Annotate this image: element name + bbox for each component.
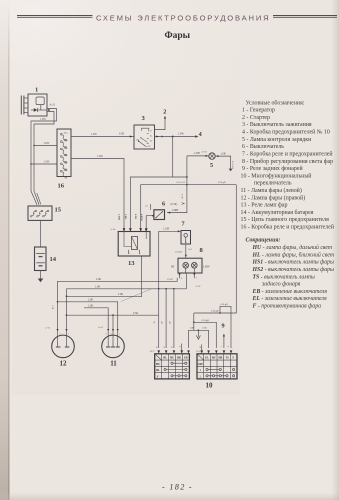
svg-text:1.25LB: 1.25LB [175,250,183,253]
svg-text:7: 7 [220,346,222,347]
svg-text:11: 11 [110,359,117,367]
svg-text:5 - Лампа контроля зарядки: 5 - Лампа контроля зарядки [242,137,312,143]
svg-text:30A: 30A [64,146,68,149]
svg-text:0.5LgB: 0.5LgB [211,310,219,313]
svg-text:8: 8 [178,346,180,347]
svg-text:14 - Аккумуляторная батарея: 14 - Аккумуляторная батарея [241,209,314,216]
svg-text:HL: HL [163,357,167,360]
svg-text:30A: 30A [64,139,68,142]
bus L4 (lamp11 hb link) [57,298,118,340]
svg-text:HU - лампа фары, дальний свет: HU - лампа фары, дальний свет [252,244,333,251]
svg-text:1.25R: 1.25R [163,227,170,230]
svg-text:2.0R: 2.0R [118,293,123,296]
wires from L2 junctions to switch table [165,289,167,348]
ground (battery) [38,279,44,283]
svg-text:16: 16 [58,183,65,190]
svg-text:0.5LgB: 0.5LgB [218,181,226,184]
svg-text:5: 5 [210,162,213,169]
grounding loop over tables [189,328,209,348]
svg-text:2 - Стартер: 2 - Стартер [242,115,270,121]
ground arrow inside loop [196,329,200,339]
svg-text:6: 6 [162,200,165,207]
svg-text:1.0R: 1.0R [124,214,127,219]
svg-text:10: 10 [162,346,164,348]
svg-text:12: 12 [60,359,68,367]
svg-text:HB: HB [219,357,223,360]
svg-text:2: 2 [106,333,107,335]
node 2 arrow (to starter) [155,108,167,129]
svg-text:Сокращения:: Сокращения: [246,238,281,244]
svg-text:1.5W: 1.5W [44,161,50,164]
svg-text:HS2 - выключатель лампы фары: HS2 - выключатель лампы фары [252,266,335,273]
svg-text:30A: 30A [64,132,68,135]
left table top pins [157,350,160,353]
svg-text:0.5W: 0.5W [180,194,182,200]
wire H2 main bus [141,181,237,232]
svg-text:1: 1 [68,333,69,335]
svg-text:HU: HU [212,357,216,360]
svg-text:12: 12 [170,346,172,348]
svg-text:4 - Коробка предохранителей №: 4 - Коробка предохранителей № 10 [242,129,330,136]
svg-text:13: 13 [128,260,135,267]
left table column wire labels [153,321,170,325]
wire branch to table pin 5 [219,303,231,348]
svg-text:1: 1 [35,87,38,94]
svg-text:12 - Лампа фары (правой): 12 - Лампа фары (правой) [241,194,306,201]
svg-text:1.25R: 1.25R [117,214,120,220]
running head rule left [17,15,93,18]
svg-text:14: 14 [50,256,57,263]
svg-text:1.0W: 1.0W [91,133,97,136]
svg-text:9 - Реле задних фонарей: 9 - Реле задних фонарей [242,165,303,172]
wire right-side drop [194,185,237,313]
svg-text:2: 2 [60,333,61,335]
svg-text:HB: HB [177,357,181,360]
bus L1 (lamp12 hi feed) [51,278,177,341]
svg-text:0.5A-18: 0.5A-18 [231,161,234,169]
svg-text:0.5R: 0.5R [133,312,138,315]
svg-text:D-11: D-11 [197,350,203,353]
relay 13 output down [141,256,143,297]
svg-text:4: 4 [199,131,202,138]
wire switch6 to relay pin4 [145,215,154,232]
svg-text:8 - Прибор регулирования света: 8 - Прибор регулирования света фар [242,158,333,165]
svg-text:1: 1 [119,333,120,335]
svg-text:1.0R: 1.0R [88,304,93,307]
svg-text:заднего фонаря: заднего фонаря [261,281,301,288]
svg-text:0.5LgB: 0.5LgB [221,303,229,306]
svg-text:11 - Лампа фары (левой): 11 - Лампа фары (левой) [241,187,302,194]
svg-text:13 - Реле ламп фар: 13 - Реле ламп фар [241,202,288,209]
wire box8 to bus L2 [186,273,188,289]
box 7 (dimmer switch) [181,221,191,244]
svg-text:1.0RB: 1.0RB [172,209,179,212]
wire right drop to lower junction [193,310,219,331]
box 8 bottom pins [178,273,201,288]
svg-text:EB: EB [184,357,188,360]
svg-text:F - противотуманная фара: F - противотуманная фара [253,303,322,310]
svg-text:7 - Коробка реле и предохранит: 7 - Коробка реле и предохранителей [242,151,333,158]
wire fusebox16 to ignition switch [71,133,134,138]
wire box7 feed [159,227,181,232]
svg-text:Фары: Фары [164,31,190,41]
svg-text:0.5A-18: 0.5A-18 [177,181,186,184]
svg-text:10: 10 [206,382,214,390]
svg-text:A-21: A-21 [50,103,56,106]
svg-text:1.0W: 1.0W [44,142,50,145]
svg-text:HS1 - выключатель лампы фары: HS1 - выключатель лампы фары [252,259,335,266]
svg-text:A-18: A-18 [202,151,208,154]
fuse box 16 [57,129,71,190]
svg-text:15: 15 [55,207,62,214]
svg-text:2.0R: 2.0R [96,278,101,281]
svg-text:A-11: A-11 [45,327,51,330]
switch 6 [145,200,184,219]
wire H1 horizontal to relay pin2 [130,177,187,232]
svg-text:HU: HU [156,363,160,366]
svg-text:3 - Выключатель зажигания: 3 - Выключатель зажигания [242,122,312,128]
svg-text:1.0W: 1.0W [178,132,184,135]
multifunction switch 10 : right contact table [197,345,238,379]
svg-text:1: 1 [196,277,197,279]
right page edge shading [0,0,1,1]
svg-text:Условные обозначения:: Условные обозначения: [246,99,305,106]
svg-text:1.0W: 1.0W [40,118,46,121]
node 9 arrow (to rear lamp relay) [222,323,226,348]
wire box7 to box8 [175,244,193,258]
svg-text:TS - выключатель лампы: TS - выключатель лампы [253,274,315,280]
svg-text:30A: 30A [64,154,68,157]
wire fusebox16 to relay coil [71,155,124,232]
wire fusebox16 input upper [33,142,57,146]
svg-text:1.0B: 1.0B [221,152,226,155]
generator 1 [21,87,55,116]
svg-text:0.5B: 0.5B [119,133,124,136]
svg-text:HL: HL [156,369,160,372]
svg-text:10 - Многофункциональный: 10 - Многофункциональный [241,172,313,179]
svg-text:1.25R: 1.25R [167,278,173,281]
wire box7 long drop to switch table [158,231,160,348]
running head rule right [273,15,337,18]
svg-text:1.25B: 1.25B [194,152,201,155]
svg-text:HU: HU [170,357,174,360]
bus L6 (dimmer line) [66,312,159,341]
svg-text:6: 6 [227,346,229,347]
svg-text:2.0R: 2.0R [88,298,93,301]
wire 15 to battery [40,220,42,247]
svg-text:0.5Y: 0.5Y [196,285,201,288]
svg-text:A-12: A-12 [98,326,104,329]
wire generator to fuse boxes (double cable) [31,109,57,205]
multifunction switch 10 : left contact table [150,344,190,379]
svg-text:(0.5R): (0.5R) [171,203,178,206]
svg-text:16 - Коробка реле и предохрани: 16 - Коробка реле и предохранителей [241,224,335,231]
svg-text:D-17: D-17 [150,350,156,353]
wire branch to table pin 3 [194,319,217,348]
svg-text:1.0B: 1.0B [202,328,207,330]
svg-text:1.0R: 1.0R [190,328,195,330]
wire J1 down [172,137,174,178]
ignition switch 3 [134,115,155,149]
wire fusebox16 input lower [30,161,57,165]
svg-text:LOW: LOW [203,264,210,268]
svg-text:0.85W: 0.85W [140,214,143,221]
wire ignition out to node 4 [155,132,196,137]
node J1 junction [172,136,174,138]
svg-text:1.0R: 1.0R [95,285,100,288]
svg-text:- 182 -: - 182 - [162,483,193,492]
svg-text:1.0R: 1.0R [51,305,53,310]
svg-text:3: 3 [111,333,112,335]
svg-text:6 - Выключатель: 6 - Выключатель [242,144,284,150]
svg-text:1.0W: 1.0W [97,155,103,158]
wire lamp5 to ground [215,152,234,169]
headlamp leveling unit 8 [171,247,210,273]
svg-text:HL - лампа фары, ближний свет: HL - лампа фары, ближний свет [252,251,335,258]
svg-text:ACC: ACC [147,145,152,148]
bus L5 (lamp11 hi link) [84,304,108,340]
svg-text:40A: 40A [64,169,68,172]
svg-text:16: 16 [155,346,157,348]
left page gutter shading [0,0,1,1]
svg-text:OFF: OFF [198,363,204,366]
diagonal wire jog (scan) [121,289,151,302]
svg-text:TS: TS [226,357,230,360]
headlamp 12 (left) [45,327,74,368]
svg-text:1 - Генератор: 1 - Генератор [242,108,275,114]
svg-text:2: 2 [163,108,166,115]
relay 13 [110,214,150,267]
svg-text:СХЕМЫ ЭЛЕКТРООБОРУДОВАНИЯ: СХЕМЫ ЭЛЕКТРООБОРУДОВАНИЯ [96,13,269,22]
svg-text:EL: EL [205,357,209,360]
wire lamp5 feed [187,151,209,157]
abbreviation items [252,244,335,309]
svg-text:EL - заземление выключателя: EL - заземление выключателя [252,296,327,302]
svg-text:EB - заземление выключателя: EB - заземление выключателя [252,289,328,295]
svg-text:переключатель: переключатель [254,181,292,187]
svg-text:A-16: A-16 [110,228,116,231]
svg-text:0.5LgB: 0.5LgB [202,319,210,322]
svg-text:0.5R: 0.5R [134,214,137,219]
battery 14 [35,247,57,271]
right table top pins [200,350,203,353]
wire V2 vertical (lamp5 / switch6 feed) [167,156,188,214]
bus L3 (relay feed line) [66,293,142,297]
svg-text:HI: HI [171,264,174,268]
svg-text:7: 7 [182,221,185,228]
node 4 arrow [195,131,201,138]
svg-text:0.2: 0.2 [145,205,148,207]
ground (lamp 5) [229,169,233,172]
svg-text:18: 18 [198,346,200,348]
fusible link box 15 [28,206,62,220]
svg-text:30A: 30A [64,161,68,164]
wire battery to ground [40,271,42,279]
svg-text:15 - Цепь главного предохранит: 15 - Цепь главного предохранителя [241,217,330,223]
indicator lamp 5 [209,153,215,169]
headlamp 11 (right) [98,326,124,367]
bus L2 (leveling feed) [67,285,187,340]
svg-text:9: 9 [222,323,225,330]
bottom page edge shading [0,0,1,1]
